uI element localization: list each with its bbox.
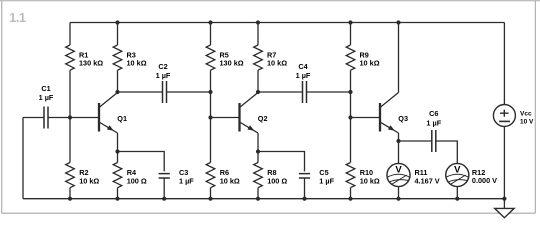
wire collector Q2 to C4 (258, 91, 303, 93)
node R8 ground (256, 197, 260, 201)
wire R12 bottom (456, 186, 458, 198)
wire base Q2 (211, 117, 240, 119)
resistor R3 (113, 45, 122, 70)
node R4 ground (115, 197, 119, 201)
wire R5 bottom (210, 70, 212, 92)
node R10 ground (348, 197, 352, 201)
transistor Q3 (380, 93, 399, 134)
wire input left riser (22, 118, 24, 199)
wire top supply rail (70, 22, 504, 24)
wire Vcc top feed (503, 23, 505, 105)
svg-text:1.1: 1.1 (9, 10, 26, 25)
svg-text:1 µF: 1 µF (426, 119, 441, 128)
node ground tap (502, 197, 506, 201)
wire R8 bottom (257, 188, 259, 199)
label C2 value (156, 62, 171, 80)
wire R10 top (350, 118, 352, 163)
capacitor C3 (159, 174, 170, 178)
svg-text:10 V: 10 V (520, 119, 534, 126)
label R8 (267, 168, 287, 186)
svg-text:Q3: Q3 (398, 114, 408, 123)
wire emitter Q3 down (398, 133, 400, 141)
svg-text:10 kΩ: 10 kΩ (127, 58, 147, 67)
source Vcc (493, 105, 515, 127)
resistor R8 (254, 163, 263, 188)
node collector Q3 supply (396, 20, 400, 24)
wire base Q1 (70, 117, 99, 119)
node collector Q2 (256, 90, 260, 94)
svg-text:10 kΩ: 10 kΩ (79, 176, 99, 185)
label R12 (472, 168, 497, 185)
capacitor C2 (163, 81, 167, 103)
wire R9 bottom (350, 70, 352, 92)
wire R1 top (69, 23, 71, 46)
wire R11 top (398, 141, 400, 164)
svg-text:10 kΩ: 10 kΩ (360, 176, 380, 185)
wire emitter Q1 down (117, 133, 119, 152)
node R2 ground (68, 197, 72, 201)
svg-text:C1: C1 (41, 84, 50, 93)
label C5 (319, 168, 334, 186)
wire R6 top (210, 118, 212, 163)
resistor R4 (113, 163, 122, 188)
wire R9 top (350, 23, 352, 46)
wire R2 bottom (69, 188, 71, 199)
svg-text:10 kΩ: 10 kΩ (360, 58, 380, 67)
wire base Q3 (351, 117, 381, 119)
node C5 ground (302, 197, 306, 201)
svg-text:Q2: Q2 (258, 114, 268, 123)
node C3 ground (162, 197, 166, 201)
wire R1 bottom to base node (69, 70, 71, 117)
svg-text:V: V (454, 164, 461, 175)
svg-text:1 µF: 1 µF (39, 93, 54, 102)
label C3 (179, 168, 194, 186)
svg-text:1 µF: 1 µF (179, 176, 194, 185)
svg-text:10 kΩ: 10 kΩ (220, 176, 240, 185)
svg-text:130 kΩ: 130 kΩ (79, 58, 103, 67)
svg-text:100 Ω: 100 Ω (267, 176, 287, 185)
ground (495, 208, 514, 217)
voltmeter R11 (387, 163, 410, 186)
capacitor C5 (299, 174, 310, 178)
wire C2 node to base node Q2 (210, 92, 212, 118)
label R2 (79, 168, 99, 186)
node emitter Q2 (256, 149, 260, 153)
node emitter Q1 (115, 149, 119, 153)
node R11 ground (396, 197, 400, 201)
wire input to C1 (23, 117, 44, 119)
svg-text:Vcc: Vcc (520, 110, 532, 117)
label C6 value (426, 109, 441, 127)
label R7 (267, 51, 287, 68)
wire collector Q3 to supply (398, 23, 400, 93)
wire C4 node to base node Q3 (350, 92, 352, 118)
label R4 (127, 168, 147, 186)
wire R3 top (117, 23, 119, 46)
svg-text:4.167 V: 4.167 V (415, 176, 440, 185)
wire emitter Q3 to C6 (399, 140, 432, 142)
wire emitter Q2 down (257, 133, 259, 152)
capacitor C4 (303, 81, 307, 103)
svg-text:1 µF: 1 µF (156, 71, 171, 80)
wire R3 bottom to collector node (117, 70, 119, 92)
wire C3 bottom (163, 178, 165, 199)
label C1 value (39, 84, 54, 102)
wire R10 bottom (350, 188, 352, 199)
wire emitter Q1 to C3 (118, 152, 165, 172)
wire R4 top (117, 152, 119, 163)
node R7 supply (256, 20, 260, 24)
wire R7 top (257, 23, 259, 46)
wire R6 bottom (210, 188, 212, 199)
label C4 value (296, 62, 311, 80)
wire collector Q1 to C2 (118, 91, 163, 93)
resistor R5 (206, 45, 215, 70)
wire C5 bottom (304, 178, 306, 199)
label Vcc (520, 110, 534, 125)
node emitter Q3 (396, 139, 400, 143)
transistor Q1 (99, 93, 118, 134)
wire C6 to R12 (436, 141, 458, 164)
svg-text:C2: C2 (158, 62, 167, 71)
node R5 supply (208, 20, 212, 24)
resistor R2 (66, 163, 75, 188)
resistor R1 (66, 45, 75, 70)
svg-text:C4: C4 (298, 62, 308, 71)
wire C4 to R9 node (307, 91, 351, 93)
capacitor C1 (44, 107, 48, 129)
label R1 (79, 51, 103, 68)
wire C2 to R5 node (167, 91, 211, 93)
node collector Q1 (115, 90, 119, 94)
capacitor C6 (432, 130, 436, 152)
svg-text:100 Ω: 100 Ω (127, 176, 147, 185)
wire C1 to base node Q1 (48, 117, 70, 119)
svg-text:130 kΩ: 130 kΩ (220, 58, 244, 67)
wire R8 top (257, 152, 259, 163)
node R3 supply (115, 20, 119, 24)
node C2 junction (208, 90, 212, 94)
svg-text:C6: C6 (429, 109, 438, 118)
transistor Q2 (240, 93, 259, 134)
wire R4 bottom (117, 188, 119, 199)
label R9 (360, 51, 380, 68)
resistor R6 (206, 163, 215, 188)
node base Q1 (68, 115, 72, 119)
resistor R9 (346, 45, 355, 70)
wire to ground symbol (503, 199, 505, 209)
svg-text:10 kΩ: 10 kΩ (267, 58, 287, 67)
resistor R10 (346, 163, 355, 188)
resistor R7 (254, 45, 263, 70)
node R12 ground (455, 197, 459, 201)
label R3 (127, 51, 147, 68)
wire bottom ground rail (23, 198, 504, 200)
node R6 ground (208, 197, 212, 201)
label R5 (220, 51, 244, 68)
node R9 supply (348, 20, 352, 24)
svg-text:1 µF: 1 µF (319, 176, 334, 185)
svg-text:Q1: Q1 (117, 114, 127, 123)
node C4 junction (348, 90, 352, 94)
wire R11 bottom (398, 186, 400, 198)
wire R2 top (69, 118, 71, 163)
wire R7 bottom to collector node (257, 70, 259, 92)
wire Vcc bottom feed (503, 127, 505, 199)
label R10 (360, 168, 380, 186)
node base Q3 (348, 115, 352, 119)
label R6 (220, 168, 240, 186)
svg-text:1 µF: 1 µF (296, 71, 311, 80)
voltmeter R12 (446, 163, 469, 186)
svg-text:V: V (395, 164, 402, 175)
node base Q2 (208, 115, 212, 119)
wire emitter Q2 to C5 (258, 152, 305, 172)
svg-text:0.000 V: 0.000 V (472, 176, 497, 185)
wire R5 top (210, 23, 212, 46)
label R11 (415, 168, 440, 186)
